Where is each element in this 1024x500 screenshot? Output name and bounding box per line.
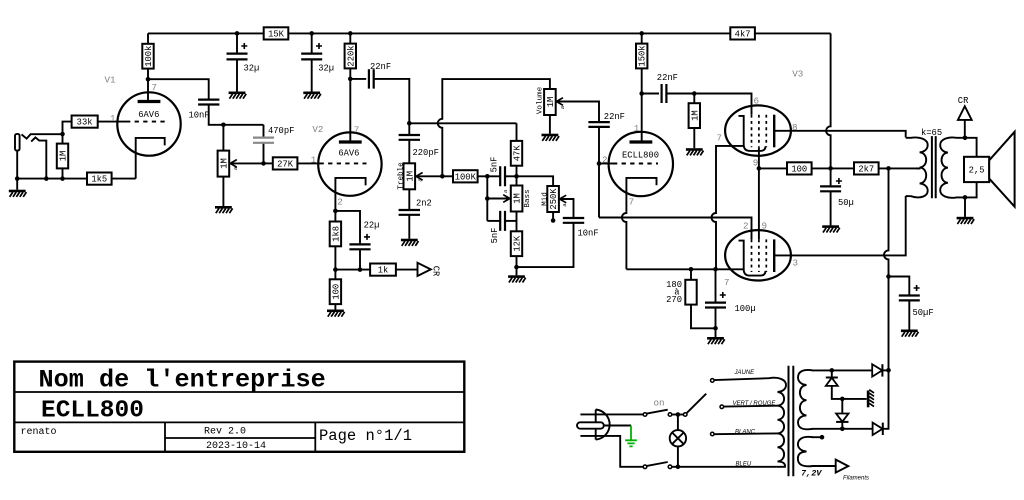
svg-text:2: 2: [337, 196, 343, 207]
capacitor 50uF: [889, 277, 910, 296]
wire secondary to speaker: [965, 138, 977, 198]
svg-text:470pF: 470pF: [268, 126, 294, 136]
wire tap entry: [916, 167, 920, 169]
wire V3 upper anode pin8 to transformer: [774, 131, 906, 138]
wire rail segment 2: [288, 32, 730, 34]
resistor 27K: [273, 157, 298, 169]
wire counter-feedback bus: [335, 269, 370, 271]
svg-text:a: a: [232, 167, 239, 170]
svg-text:1M: 1M: [219, 158, 229, 169]
svg-text:a: a: [417, 178, 424, 181]
stub mid bottom open: [552, 212, 554, 220]
transformer power primary: [714, 378, 786, 406]
wire ECLL cathode drop with hop: [622, 211, 627, 269]
node rail-100k: [235, 31, 240, 36]
wire rail segment 3 to B+ drop: [755, 32, 831, 34]
svg-text:BLANC: BLANC: [735, 430, 756, 436]
ground 1M V3: [686, 148, 704, 155]
node V1 anode: [146, 77, 151, 82]
wire switch to lamp node: [672, 414, 684, 416]
wiper Treble: [417, 175, 443, 177]
wire grid stub: [599, 163, 613, 165]
node 47K bottom: [514, 174, 519, 179]
resistor 12K: [511, 231, 522, 256]
resistor 100K: [453, 170, 478, 182]
node V2 anode: [348, 77, 353, 82]
svg-text:50µF: 50µF: [913, 308, 934, 318]
capacitor 10nF mid: [563, 218, 584, 223]
wire jack bottom bus: [17, 178, 87, 180]
svg-text:1k8: 1k8: [331, 226, 341, 242]
wire filament bottom: [812, 465, 836, 467]
transformer output primary upper: [906, 137, 928, 167]
resistor 1k: [370, 264, 396, 276]
wire to bias ground: [842, 398, 866, 400]
wire 220k bottom to V2 anode: [349, 68, 351, 141]
wiper 1M pot: [231, 162, 264, 164]
svg-text:27K: 27K: [277, 160, 294, 170]
svg-text:1M: 1M: [690, 110, 700, 121]
lamp: [677, 415, 679, 431]
capacitor 5nF lower: [487, 220, 500, 222]
wire cathode bias bus: [626, 268, 743, 270]
svg-text:7: 7: [717, 133, 723, 144]
svg-text:10nF: 10nF: [189, 110, 210, 120]
svg-text:Nom de l'entreprise: Nom de l'entreprise: [39, 365, 326, 394]
node bias 180: [689, 267, 694, 272]
ground 100: [327, 310, 345, 317]
speaker 2,5: [964, 157, 989, 182]
transformer power filament secondary: [798, 437, 813, 466]
capacitor 32u second: [311, 33, 313, 53]
svg-text:1M: 1M: [546, 97, 556, 108]
svg-text:ECLL800: ECLL800: [41, 398, 144, 425]
resistor 100 screen: [787, 162, 812, 174]
node rail-150k: [639, 31, 644, 36]
svg-text:7: 7: [354, 125, 360, 136]
svg-text:22nF: 22nF: [657, 73, 678, 83]
svg-text:100k: 100k: [144, 46, 154, 67]
ground 50u: [822, 225, 840, 232]
svg-text:220k: 220k: [346, 45, 356, 66]
svg-text:ECLL800: ECLL800: [622, 150, 659, 160]
svg-text:V3: V3: [792, 69, 803, 80]
ground bias right-facing: [867, 390, 874, 408]
wire 1k5 to V1 cathode: [112, 178, 136, 180]
node jack sleeve: [15, 176, 20, 181]
svg-text:7: 7: [724, 277, 730, 288]
switch selector: [683, 413, 687, 417]
node 50uF tap: [886, 274, 891, 279]
potentiometer Volume 1M: [544, 89, 556, 115]
wire neutral prong: [580, 436, 643, 467]
wire HT top to diode: [812, 369, 872, 371]
svg-text:2023-10-14: 2023-10-14: [206, 441, 266, 452]
svg-text:renato: renato: [21, 427, 57, 438]
wire 100K right: [478, 175, 500, 177]
node HT bottom: [840, 427, 845, 432]
svg-text:Volume: Volume: [537, 86, 545, 114]
node treble wiper: [440, 174, 445, 179]
svg-text:15K: 15K: [268, 30, 285, 40]
svg-text:3: 3: [793, 257, 799, 268]
potentiometer Mid 250K: [547, 186, 559, 212]
node lamp top: [676, 412, 681, 417]
svg-text:250K: 250K: [549, 188, 559, 210]
wire secondary ground stem: [964, 197, 966, 217]
wire mid top feed: [517, 176, 554, 186]
ground 100u: [707, 337, 725, 344]
connector filaments: [836, 460, 849, 473]
transformer output primary lower: [906, 167, 928, 197]
wire B+ drop with hop: [884, 168, 889, 370]
svg-text:22nF: 22nF: [370, 62, 391, 72]
ground speaker: [957, 217, 975, 224]
resistor 1k8: [330, 222, 341, 247]
wire top supply rail left segment: [148, 32, 264, 34]
tap vert/rouge: [720, 405, 724, 409]
capacitor 10nF coupling V1: [198, 100, 219, 105]
svg-text:7: 7: [629, 196, 635, 207]
node bias 100u: [713, 267, 718, 272]
svg-text:2n2: 2n2: [416, 199, 432, 209]
diode D3 up: [831, 370, 833, 377]
wire 150k bottom to ECLL anode: [641, 68, 643, 141]
node 1M grid V3: [692, 91, 697, 96]
svg-text:22nF: 22nF: [604, 112, 625, 122]
ground 12K: [508, 275, 526, 282]
wire pin9 to 100: [759, 167, 787, 169]
capacitor 50u screen: [830, 168, 832, 186]
node secondary bottom: [963, 195, 968, 200]
node tone stack top: [407, 121, 412, 126]
svg-text:1M: 1M: [405, 171, 415, 182]
ground Volume: [542, 134, 560, 141]
wire pin9 to lower tube: [758, 168, 760, 239]
capacitor 470pF gray: [263, 125, 265, 164]
svg-text:270: 270: [666, 295, 682, 305]
svg-text:150k: 150k: [638, 45, 648, 66]
svg-text:CR: CR: [431, 266, 441, 277]
ground 50uF: [901, 330, 919, 337]
svg-text:a: a: [502, 190, 509, 193]
tube V3 upper pentode: [725, 105, 791, 155]
svg-text:100: 100: [791, 165, 807, 175]
svg-text:100: 100: [331, 284, 341, 300]
potentiometer Bass 1M: [511, 186, 523, 212]
svg-text:Mid: Mid: [541, 192, 549, 206]
wiper Volume arrow left: [557, 102, 599, 122]
wire 220k top: [349, 33, 351, 43]
transformer core output: [932, 136, 936, 198]
resistor 33k: [72, 116, 98, 128]
resistor 220k: [345, 44, 356, 69]
jack J1 input connector: [15, 134, 20, 151]
svg-text:VERT / ROUGE: VERT / ROUGE: [733, 401, 777, 407]
node screen filter: [828, 166, 833, 171]
mains plug: [596, 410, 610, 440]
tap blanc: [711, 432, 715, 436]
node ECLL grid: [597, 161, 602, 166]
resistor 150k: [636, 44, 647, 69]
wire 100k bottom to V1 anode: [147, 69, 149, 101]
wiper Mid arrow left: [560, 199, 573, 217]
wire grid drive bus to lower pentode: [599, 218, 752, 240]
capacitor 220pF: [408, 123, 410, 134]
svg-text:a: a: [561, 203, 568, 206]
resistor 100 cathode: [330, 279, 341, 304]
svg-text:100µ: 100µ: [735, 304, 756, 314]
wire bleu: [672, 466, 777, 468]
svg-text:BLEU: BLEU: [736, 462, 752, 468]
capacitor 2n2: [408, 189, 410, 209]
earth pin: [577, 422, 604, 428]
wire 27K left: [264, 162, 273, 164]
wire V3 upper cathode to bias node with hops: [712, 146, 744, 269]
title block frame: [14, 362, 464, 452]
wire tone top to 47K: [409, 122, 516, 124]
transformer power HT secondary: [798, 370, 813, 429]
svg-text:6AV6: 6AV6: [138, 110, 159, 120]
node rail-220k: [348, 31, 353, 36]
node 100u bottom: [713, 326, 718, 331]
wire 100 to node: [812, 167, 854, 169]
switch on upper: [643, 413, 647, 417]
svg-text:7,2V: 7,2V: [801, 469, 822, 479]
svg-text:V2: V2: [312, 124, 323, 135]
tube V2 6AV6 triode: [318, 132, 381, 195]
svg-text:Filaments: Filaments: [843, 476, 869, 482]
wire bass feed left chain: [486, 176, 488, 221]
svg-text:V1: V1: [105, 74, 117, 85]
svg-text:Rev 2.0: Rev 2.0: [204, 426, 246, 437]
connector CR out: [418, 263, 431, 276]
wire HT bottom to diode: [812, 428, 873, 430]
diode D1: [872, 364, 882, 376]
wire V3 upper g2 pin9 down: [758, 147, 760, 168]
ground earth green: [625, 426, 637, 447]
switch on lower: [643, 465, 647, 469]
svg-text:47K: 47K: [513, 145, 523, 162]
svg-text:6AV6: 6AV6: [338, 148, 359, 158]
wire wiper to 100K: [442, 175, 453, 177]
node rail-32u2: [309, 31, 314, 36]
node 1M bottom: [60, 176, 65, 181]
node V2 cathode: [333, 209, 338, 214]
potentiometer 1M feedback: [218, 151, 230, 177]
svg-text:1: 1: [110, 113, 116, 124]
node B+: [886, 166, 891, 171]
ground 1M pot: [215, 206, 233, 213]
svg-text:Page n°1/1: Page n°1/1: [319, 427, 412, 445]
wire 27K to V2 grid: [297, 162, 319, 164]
svg-text:32µ: 32µ: [318, 64, 334, 74]
node jack switch: [44, 176, 49, 181]
svg-text:k=65: k=65: [921, 128, 942, 138]
node secondary top: [963, 136, 968, 141]
resistor 1M input: [57, 144, 68, 169]
svg-text:1M: 1M: [59, 151, 69, 162]
ground 32u first: [229, 92, 247, 99]
transformer core power: [789, 366, 794, 477]
svg-text:50µ: 50µ: [838, 198, 854, 208]
svg-text:2: 2: [743, 220, 749, 231]
svg-text:220pF: 220pF: [413, 148, 439, 158]
resistor 1M grid V3: [689, 103, 700, 128]
capacitor 22u: [349, 244, 370, 249]
wire treble wiper riser with hop: [438, 79, 550, 176]
node B+ rectifier: [886, 368, 891, 373]
svg-text:1M: 1M: [513, 193, 523, 204]
svg-text:2,5: 2,5: [969, 166, 985, 176]
resistor 15K: [264, 27, 289, 39]
wire 100k top: [147, 33, 149, 43]
svg-text:7: 7: [152, 82, 158, 93]
svg-text:32µ: 32µ: [244, 64, 260, 74]
node tone junction 27K: [261, 161, 266, 166]
wire 150k top: [641, 33, 643, 43]
wiper Bass arrow right: [487, 198, 509, 200]
svg-text:9: 9: [762, 220, 768, 231]
wire earth: [604, 425, 631, 427]
node 1k8 bottom: [333, 267, 338, 272]
capacitor 100u: [715, 269, 717, 302]
svg-text:Treble: Treble: [398, 162, 406, 190]
capacitor 22nF to ECLL grid: [588, 122, 609, 127]
node ECLL anode: [639, 91, 644, 96]
tube V3 lower pentode: [725, 230, 791, 280]
svg-text:33k: 33k: [77, 118, 93, 128]
wire cathode to 22u: [335, 211, 360, 244]
node 1M-pot top: [221, 123, 226, 128]
ground 2n2: [401, 239, 419, 246]
svg-text:JAUNE: JAUNE: [734, 370, 756, 376]
svg-text:1k5: 1k5: [91, 175, 107, 185]
resistor 47K: [511, 141, 522, 166]
tube V1 6AV6 triode: [117, 92, 180, 155]
resistor 1k5: [87, 173, 112, 185]
wire filament top stub: [812, 436, 821, 438]
diode D2: [873, 423, 883, 435]
wire 4k7 drop with hop: [826, 33, 831, 168]
ground jack: [9, 190, 27, 197]
transformer output secondary: [940, 137, 965, 197]
wire V1 anode to 10nF: [148, 79, 209, 99]
resistor 180 a 270: [685, 280, 696, 305]
wire 33k to V1 grid: [98, 121, 126, 123]
tube ECLL800 triode section: [609, 132, 673, 196]
diode D4 down: [841, 399, 843, 414]
wire 1k to CR: [396, 269, 418, 271]
svg-text:4k7: 4k7: [735, 30, 751, 40]
node pin9 bus: [757, 166, 762, 171]
node 5nF left: [485, 174, 490, 179]
capacitor 32u first: [236, 33, 238, 53]
resistor 4k7: [730, 27, 755, 39]
capacitor 22nF to V3 upper: [642, 93, 659, 95]
node lamp bottom: [676, 465, 681, 470]
node 12K bottom: [514, 265, 519, 270]
svg-text:12K: 12K: [513, 235, 523, 252]
resistor 100k: [142, 44, 153, 69]
svg-text:100K: 100K: [455, 172, 477, 182]
node jack tip / 33k: [60, 132, 65, 137]
svg-text:2: 2: [602, 154, 608, 165]
node bass wiper feed: [485, 196, 490, 201]
svg-text:22µ: 22µ: [364, 220, 380, 230]
svg-text:1: 1: [311, 154, 317, 165]
svg-text:10nF: 10nF: [578, 228, 599, 238]
svg-text:6: 6: [754, 96, 760, 107]
capacitor 5nF upper: [500, 166, 505, 186]
wire V3 lower anode pin3 to transformer: [774, 196, 906, 255]
svg-text:on: on: [654, 398, 665, 409]
svg-text:1k: 1k: [378, 266, 389, 276]
node 22u bottom: [358, 267, 363, 272]
resistor 2k7: [854, 162, 879, 174]
potentiometer Treble 1M: [404, 163, 416, 189]
svg-text:a: a: [559, 106, 566, 109]
svg-text:1: 1: [634, 123, 640, 134]
node diode small top: [830, 368, 835, 373]
svg-text:5nF: 5nF: [489, 157, 499, 173]
wire phase prong to switch: [580, 413, 643, 415]
svg-text:Bass: Bass: [524, 189, 532, 207]
wire 2k7 to tap: [879, 167, 921, 169]
ground 32u second: [303, 92, 321, 99]
node bias divider: [840, 397, 845, 402]
svg-text:2k7: 2k7: [858, 165, 874, 175]
capacitor 22nF V2 coupling: [350, 78, 366, 80]
wire 33k left: [63, 122, 72, 134]
tap jaune: [711, 379, 715, 383]
svg-text:5nF: 5nF: [490, 228, 500, 244]
svg-text:CR: CR: [958, 96, 969, 106]
